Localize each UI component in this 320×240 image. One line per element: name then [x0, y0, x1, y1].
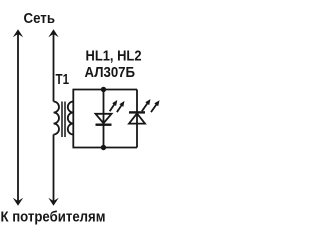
- wire: secondary lead / loop left edge: [72, 90, 74, 148]
- wire: HL2 branch (right edge): [136, 90, 138, 148]
- wire: HL1 branch: [103, 90, 105, 148]
- LED HL2 (cathode up): [129, 111, 145, 113]
- HL2 light arrow 1: [142, 102, 148, 111]
- svg-text:HL1, HL2: HL1, HL2: [86, 48, 142, 64]
- wire: loop top rail: [73, 89, 138, 91]
- svg-text:Т1: Т1: [56, 72, 70, 88]
- arrowhead down on right mains line: [48, 198, 58, 206]
- transformer T1 core: [61, 102, 63, 138]
- arrowhead up on left mains line: [13, 29, 23, 37]
- arrowhead down on left mains line: [13, 198, 23, 206]
- wire: right mains line (upper part): [53, 31, 55, 102]
- wire: left mains line: [17, 31, 19, 204]
- wire: right mains line (lower part): [53, 135, 55, 205]
- svg-text:АЛ307Б: АЛ307Б: [85, 65, 136, 81]
- svg-text:Сеть: Сеть: [24, 11, 56, 27]
- transformer T1 primary winding: [54, 102, 60, 135]
- svg-text:К потребителям: К потребителям: [1, 209, 106, 225]
- node junction dot bottom: [101, 145, 106, 150]
- LED HL1 (cathode down): [96, 114, 112, 123]
- arrowhead up on right mains line: [48, 29, 58, 37]
- wire: loop bottom rail: [73, 147, 138, 149]
- transformer T1 secondary winding: [68, 102, 74, 135]
- HL2 light arrow 2: [151, 104, 157, 113]
- HL1 light arrow 2: [117, 104, 122, 112]
- HL1 light arrow 1: [110, 103, 115, 111]
- node junction dot top: [101, 87, 106, 92]
